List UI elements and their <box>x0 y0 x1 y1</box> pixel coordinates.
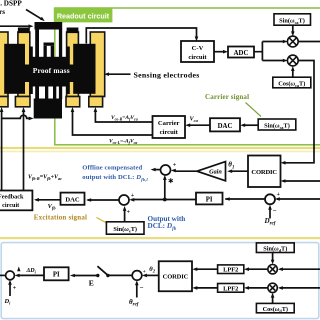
bottom spring leg 4 <box>59 86 62 99</box>
wire D_ref to S2 <box>269 207 271 219</box>
wire PI1 to S3 <box>132 199 197 201</box>
top spring anchor bar <box>35 22 63 30</box>
wire DAC2 to feedback circuit <box>36 199 61 201</box>
svg-text:circuit: circuit <box>188 54 207 61</box>
LPF2 box b <box>218 284 244 293</box>
proof mass left pad <box>4 44 25 94</box>
LPF2 box a <box>218 265 244 274</box>
wire yellow separator line 2 <box>0 151 320 153</box>
summing node S5 <box>132 271 142 281</box>
svg-text:Sin(ωeT): Sin(ωeT) <box>113 226 137 234</box>
wire S2 to PI1 <box>225 198 265 200</box>
top mass finger left <box>30 47 33 58</box>
electrode column 1 <box>0 32 8 97</box>
svg-text:DAC: DAC <box>65 197 80 204</box>
wire PI2 to S4 <box>17 274 44 276</box>
Sin(w_e T) box <box>106 222 144 234</box>
wire right edge to X4 <box>280 287 320 289</box>
Gain triangle <box>197 162 226 181</box>
top mass finger right <box>67 47 70 58</box>
anchor foot 4 <box>89 97 103 107</box>
svg-text:CORDIC: CORDIC <box>163 274 189 281</box>
anchor foot 2 <box>15 97 30 107</box>
svg-text:Gain: Gain <box>209 169 222 176</box>
PI2 box <box>44 267 69 280</box>
wire S1 bottom input <box>164 177 166 200</box>
wire Sin to multiplier 1 <box>292 25 294 33</box>
wire yellow separator line 1 <box>0 147 320 149</box>
top spring U horizontal <box>44 43 55 46</box>
svg-text:−: − <box>273 207 277 215</box>
wire CORDIC2 to S5 <box>145 274 159 276</box>
Carrier circuit box <box>153 116 186 138</box>
wire multiplier 1 out <box>298 41 320 43</box>
Cos(w_d T) box <box>256 303 294 313</box>
wire X4 to LPF2b <box>247 287 268 289</box>
svg-text:Excitation signal: Excitation signal <box>34 213 87 221</box>
wire LPF2b to CORDIC2 <box>195 287 218 289</box>
summing node S3 <box>119 195 129 205</box>
wire Gain to S1 <box>175 170 198 172</box>
wire X3 to LPF2a <box>247 268 268 270</box>
wire carrier pointer <box>246 103 262 117</box>
svg-text:ADC: ADC <box>234 50 249 57</box>
ADC box <box>228 47 254 58</box>
wire theta_ref to S5 <box>136 283 138 298</box>
bottom mass neck <box>30 82 70 87</box>
svg-text:Cos(ωcaT): Cos(ωcaT) <box>278 81 305 89</box>
svg-text:Vfb-R=Vfb+Vac: Vfb-R=Vfb+Vac <box>28 175 62 182</box>
DAC1 box <box>210 118 240 131</box>
multiplier X1 <box>287 36 298 47</box>
svg-text:LPF2: LPF2 <box>223 267 238 274</box>
proof mass right pad <box>73 44 95 94</box>
CORDIC2 box <box>159 261 192 291</box>
node blue box around bottom loop <box>1 243 319 319</box>
CORDIC1 box <box>248 156 281 188</box>
wire Cos to multiplier 2 <box>292 69 294 77</box>
svg-text:PI: PI <box>206 197 213 204</box>
svg-text:Readout circuit: Readout circuit <box>57 11 110 20</box>
top spring leg left <box>35 29 39 58</box>
bottom spring leg 3 <box>53 86 56 99</box>
top spring U leg b <box>51 46 54 58</box>
svg-text:+: + <box>173 163 177 169</box>
wire CORDIC1 to Gain <box>230 170 248 172</box>
svg-text:CORDIC: CORDIC <box>251 169 277 176</box>
summing node S1 <box>161 165 171 175</box>
svg-text:. DSPP: . DSPP <box>0 0 22 8</box>
svg-text:+: + <box>131 193 135 199</box>
wire switch to PI2 <box>73 275 98 277</box>
wire LPF2a to CORDIC2 <box>195 268 218 270</box>
svg-text:Sin(ωcaT): Sin(ωcaT) <box>279 18 305 26</box>
svg-text:circuit: circuit <box>160 129 179 136</box>
bottom spring leg 1 <box>35 86 39 99</box>
wire S3 to DAC2 <box>88 199 120 201</box>
proof mass central bar <box>22 65 76 83</box>
svg-text:Sin(ωcaT): Sin(ωcaT) <box>264 122 290 129</box>
bottom spring leg 2 <box>45 86 48 99</box>
svg-text:Proof mass: Proof mass <box>33 66 70 75</box>
svg-text:Cos(ωdT): Cos(ωdT) <box>263 306 288 314</box>
anchor foot 3 <box>66 97 80 107</box>
node Readout circuit green boundary <box>54 8 320 145</box>
electrode column 2 <box>18 32 30 97</box>
wire Cos_d to X4 <box>272 295 274 304</box>
multiplier X3 <box>268 265 277 274</box>
PI1 box <box>196 193 223 205</box>
svg-text:ΔDi: ΔDi <box>26 268 37 275</box>
black cap over column 3 <box>67 28 79 34</box>
svg-text:C-V: C-V <box>192 45 204 52</box>
svg-text:−: − <box>140 284 144 292</box>
wire S1 output stub <box>154 169 161 171</box>
svg-text:Offline compensated: Offline compensated <box>82 164 142 171</box>
wire S5 to switch <box>108 274 132 276</box>
Sin(w_ca T) demod box <box>274 14 311 25</box>
wire carrier to foot 4 (V_co-R) <box>95 111 152 123</box>
wire yellow separator line 3 <box>0 237 320 239</box>
svg-text:PI: PI <box>53 272 60 279</box>
wire ADC branch to multipliers <box>254 42 285 61</box>
svg-text:output with DCL: Dfb,l: output with DCL: Dfb,l <box>82 174 148 182</box>
wire multiplier 2 out to CORDIC1 <box>284 61 315 163</box>
Feedback circuit box <box>0 191 32 211</box>
svg-text:+: + <box>277 192 281 198</box>
wire proof mass to C-V circuit <box>86 28 196 44</box>
wire sensing electrodes arrow <box>107 73 131 75</box>
svg-text:+: + <box>143 269 146 275</box>
wire CORDIC1 input 2 from right edge <box>284 180 320 182</box>
wire Sin_ca to DAC1 <box>243 124 258 126</box>
anchor foot 1 <box>0 97 8 107</box>
svg-text:∗: ∗ <box>168 176 174 185</box>
svg-text:Carrier signal: Carrier signal <box>205 93 249 101</box>
small up arrow above S4 <box>17 267 20 272</box>
wire DAC1 to Carrier circuit <box>188 124 210 126</box>
wire C-V to ADC <box>214 51 225 53</box>
wire anchor arrow horizontal <box>0 25 30 27</box>
wire D_i to S4 <box>9 282 11 296</box>
svg-text:DAC: DAC <box>218 123 233 130</box>
svg-text:+: + <box>127 209 131 215</box>
electrode column 4 <box>90 32 104 97</box>
svg-text:Carrier: Carrier <box>158 120 180 127</box>
wire S4 output left <box>0 274 6 276</box>
Cos(w_ca T) demod box <box>273 77 311 88</box>
wire right edge to S2 <box>277 198 320 200</box>
wire feedback foot A down <box>1 111 3 191</box>
top spring leg right <box>59 29 62 58</box>
multiplier X4 <box>268 283 277 292</box>
summing node S2 <box>265 194 275 204</box>
svg-text:LPF2: LPF2 <box>223 285 238 292</box>
svg-text:Sin(ωdT): Sin(ωdT) <box>263 245 287 253</box>
top mass neck <box>30 57 70 65</box>
svg-text:Sensing electrodes: Sensing electrodes <box>134 70 200 79</box>
C-V circuit box U1 <box>181 41 214 62</box>
bottom mass finger right <box>67 86 70 94</box>
svg-text:circuit: circuit <box>2 202 20 209</box>
bottom mass finger left <box>30 86 33 94</box>
Sin(w_ca T) carrier box <box>258 119 296 130</box>
svg-text:Feedback: Feedback <box>0 193 24 200</box>
svg-text:ors: ors <box>0 8 5 16</box>
wire feedback foot B down <box>23 111 25 191</box>
svg-text:E: E <box>89 279 94 288</box>
wire anchor arrow diagonal <box>26 10 42 20</box>
wire excitation pointer <box>97 218 108 224</box>
wire excitation branch with hop <box>2 115 31 118</box>
wire carrier to foot 3 (V_co-L) <box>73 111 153 136</box>
MEMS device <box>0 32 105 107</box>
top spring U leg a <box>44 46 47 58</box>
multiplier X2 <box>287 55 298 66</box>
DAC2 box <box>61 193 85 205</box>
Sin(w_d T) box <box>256 243 294 253</box>
black cap over column 2 <box>18 28 30 34</box>
wire right edge to X3 <box>280 268 320 270</box>
svg-text:+: + <box>13 286 17 292</box>
wire Sin_d to X3 <box>272 253 274 263</box>
wire Sin_e to S3 <box>124 208 126 221</box>
summing node S4 <box>6 271 15 280</box>
electrode column 3 <box>67 32 79 97</box>
switch E <box>96 266 110 277</box>
bottom spring anchor block <box>34 99 62 119</box>
